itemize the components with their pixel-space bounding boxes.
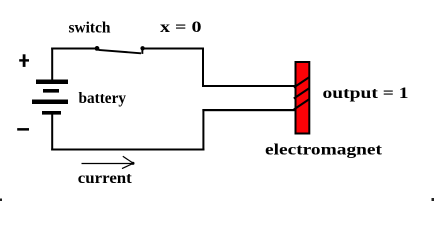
wire: right vertical upper (202, 48, 204, 88)
switch blade (99, 50, 142, 53)
wire: right vertical lower (202, 109, 204, 151)
current direction arrow (82, 156, 134, 168)
wire: branch to electromagnet bottom (202, 109, 295, 111)
corner artifact bottom-left (0, 199, 2, 202)
svg-text:x = 0: x = 0 (160, 19, 202, 36)
svg-text:electromagnet: electromagnet (265, 142, 383, 159)
wire: left vertical lower (battery - to bottom wire) (51, 114, 53, 151)
battery B1 plates (32, 80, 68, 115)
switch contact dot left (95, 46, 100, 51)
svg-text:battery: battery (79, 90, 127, 107)
current arrow tip dot (131, 162, 134, 165)
electromagnet core (red) (296, 62, 310, 134)
svg-text:switch: switch (69, 19, 111, 36)
battery negative terminal "-" (17, 128, 29, 131)
electromagnet coil hatching (294, 77, 310, 110)
battery positive terminal "+" (19, 54, 29, 67)
switch contact dot right (140, 46, 144, 50)
svg-text:current: current (78, 170, 133, 187)
wire: top horizontal left segment (51, 48, 95, 50)
corner artifact bottom-right (432, 198, 434, 201)
wire: left vertical upper (battery + to top wire) (51, 48, 53, 81)
wire: bottom horizontal (51, 149, 204, 151)
switch contact tick (right pole) (141, 48, 143, 54)
wire: branch to electromagnet top (202, 85, 296, 87)
wire: top horizontal right segment (145, 48, 205, 50)
svg-text:output = 1: output = 1 (323, 85, 409, 102)
